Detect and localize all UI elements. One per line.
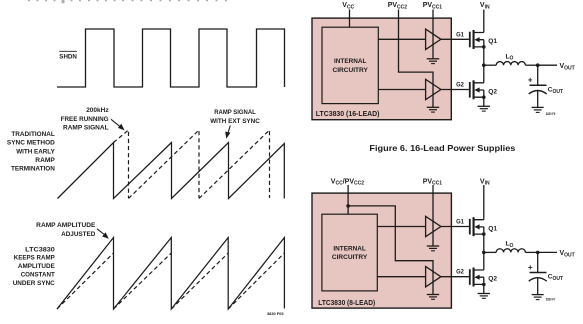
buffer top gate driver (8-lead) — [426, 216, 441, 236]
pin label VCC — [342, 2, 354, 10]
ground bottom driver — [427, 107, 439, 112]
label LTC3830 (8-LEAD) — [318, 300, 375, 307]
arrow to adjusted ramp peak — [97, 229, 109, 239]
svg-text:CIRCUITRY: CIRCUITRY — [332, 254, 368, 261]
label RAMP AMPLITUDE ADJUSTED — [36, 222, 96, 238]
svg-text:G2: G2 — [456, 81, 464, 88]
pin label PVCC1 — [423, 2, 443, 10]
svg-text:G1: G1 — [456, 219, 464, 226]
wire VIN to Q1 drain (8-lead) — [483, 185, 485, 220]
wire PVCC1 to top driver supply — [432, 10, 434, 59]
inductor LO — [496, 53, 525, 65]
svg-text:3830 F05: 3830 F05 — [267, 311, 284, 316]
capacitor COUT (8-lead) — [528, 252, 563, 294]
svg-text:VOUT: VOUT — [560, 250, 575, 258]
svg-text:COUT: COUT — [548, 87, 563, 95]
wire branch to bottom driver supply — [348, 206, 433, 295]
ground Q2 source — [478, 106, 490, 111]
ground bottom driver (8-lead) — [427, 295, 439, 300]
svg-text:WITH EXT SYNC: WITH EXT SYNC — [210, 118, 260, 125]
internal circuitry block — [322, 27, 378, 103]
svg-text:CONSTANT: CONSTANT — [21, 272, 55, 279]
arrow to ext-sync ramp peak — [225, 126, 230, 139]
transistor Q1 — [469, 30, 498, 65]
node SW junction — [482, 63, 496, 67]
svg-text:SYNC METHOD: SYNC METHOD — [7, 140, 55, 147]
ground COUT (8-lead) — [532, 295, 544, 300]
svg-text:VIN: VIN — [480, 178, 490, 186]
internal circuitry block (8-lead) — [322, 214, 377, 291]
ground top driver — [427, 59, 439, 64]
pin label PVCC1 (8-lead) — [423, 178, 443, 186]
svg-text:LTC3830: LTC3830 — [25, 246, 55, 253]
svg-text:Q1: Q1 — [488, 225, 497, 232]
label LTC3830 KEEPS RAMP AMPLITUDE CONSTANT UNDER SYNC — [13, 246, 56, 287]
svg-text:G1: G1 — [456, 31, 464, 38]
svg-text:CIRCUITRY: CIRCUITRY — [333, 67, 369, 74]
wire internal circuitry to top driver input (8-lead) — [377, 226, 425, 228]
capacitor COUT — [528, 65, 563, 107]
inductor LO (8-lead) — [496, 241, 525, 253]
wire internal circuitry to bottom driver input — [378, 89, 425, 91]
wire node G1 — [441, 31, 469, 39]
svg-text:FREE RUNNING: FREE RUNNING — [61, 116, 109, 123]
waveform solid ramp constant amplitude — [57, 238, 284, 310]
label 200kHz FREE RUNNING RAMP SIGNAL — [61, 107, 110, 131]
svg-text:PVCC1: PVCC1 — [423, 2, 443, 10]
caption Figure 6 — [369, 143, 515, 153]
svg-text:VCC: VCC — [342, 2, 354, 10]
wire node G2 — [441, 81, 469, 89]
wire internal circuitry to top driver input — [378, 38, 425, 40]
svg-text:G2: G2 — [456, 269, 464, 276]
wire node G2 (8-lead) — [441, 269, 469, 277]
wire VCC to internal circuitry — [349, 10, 351, 28]
transistor Q2 (8-lead) — [469, 252, 498, 293]
waveform dashed 200kHz free-running ramp — [114, 130, 270, 199]
ground top driver (8-lead) — [427, 246, 439, 251]
svg-text:+: + — [528, 76, 533, 85]
waveform solid ramp traditional sync early termination — [58, 143, 285, 199]
svg-text:+: + — [528, 263, 533, 272]
wire LO to output node — [525, 63, 539, 67]
waveform SHDN square wave — [57, 29, 285, 87]
wire node VOUT — [538, 63, 575, 71]
pin label PVCC2 — [388, 2, 408, 10]
svg-text:3830 F7: 3830 F7 — [546, 297, 556, 302]
wire node VOUT (8-lead) — [538, 250, 575, 258]
svg-text:TRADITIONAL: TRADITIONAL — [11, 131, 54, 138]
svg-text:SHDN: SHDN — [59, 54, 77, 61]
pin label VCC/PVCC2 — [331, 178, 364, 186]
transistor Q1 (8-lead) — [469, 217, 498, 252]
note 3830 F6 — [546, 111, 556, 116]
svg-text:RAMP SIGNAL: RAMP SIGNAL — [63, 124, 109, 131]
buffer top gate driver — [426, 29, 441, 49]
buffer bottom gate driver — [426, 79, 441, 99]
svg-text:WITH EARLY: WITH EARLY — [16, 148, 55, 155]
svg-text:LTC3830 (16-LEAD): LTC3830 (16-LEAD) — [316, 111, 380, 118]
svg-text:Q1: Q1 — [488, 38, 497, 45]
svg-text:RAMP AMPLITUDE: RAMP AMPLITUDE — [36, 222, 96, 229]
wire VIN to Q1 drain — [483, 10, 485, 33]
svg-text:RAMP SIGNAL: RAMP SIGNAL — [214, 109, 256, 116]
svg-text:TERMINATION: TERMINATION — [11, 166, 55, 173]
svg-text:COUT: COUT — [548, 274, 563, 282]
label SHDN — [59, 51, 77, 60]
svg-text:LO: LO — [506, 241, 514, 249]
waveform dashed ramp amplitude adjusted — [57, 253, 284, 309]
pin label VIN (8-lead) — [480, 178, 490, 186]
wire internal circuitry to bottom driver input (8-lead) — [377, 276, 425, 278]
svg-text:LO: LO — [506, 53, 514, 61]
svg-text:UNDER SYNC: UNDER SYNC — [13, 280, 55, 287]
IC U1 LTC3830 (16-LEAD) package box — [312, 18, 451, 120]
svg-text:VIN: VIN — [480, 2, 490, 10]
svg-text:KEEPS RAMP: KEEPS RAMP — [14, 255, 56, 262]
transistor Q2 — [469, 65, 498, 106]
svg-text:AMPLITUDE: AMPLITUDE — [18, 263, 56, 270]
wire PVCC2 to bottom driver supply — [399, 10, 434, 108]
svg-text:Q2: Q2 — [488, 88, 497, 95]
svg-text:Figure 6. 16-Lead Power Suppli: Figure 6. 16-Lead Power Supplies — [369, 143, 515, 153]
svg-text:LTC3830 (8-LEAD): LTC3830 (8-LEAD) — [318, 300, 375, 307]
wire PVCC1 to top driver supply (8-lead) — [432, 185, 434, 246]
svg-text:200kHz: 200kHz — [86, 107, 109, 114]
arrow to free-running ramp peak — [111, 119, 125, 130]
svg-text:PVCC2: PVCC2 — [388, 2, 408, 10]
wire node G1 (8-lead) — [441, 219, 469, 227]
pin label VIN — [480, 2, 490, 10]
label RAMP SIGNAL WITH EXT SYNC — [210, 109, 260, 125]
ground COUT — [532, 107, 544, 112]
label TRADITIONAL SYNC METHOD WITH EARLY RAMP TERMINATION — [7, 131, 56, 172]
label LTC3830 (16-LEAD) — [316, 111, 380, 118]
note 3830 F7 — [546, 297, 556, 302]
svg-text:Q2: Q2 — [488, 276, 497, 283]
node junction VCC/PVCC2 branch — [346, 204, 350, 208]
svg-text:INTERNAL: INTERNAL — [333, 245, 365, 252]
svg-text:INTERNAL: INTERNAL — [334, 58, 366, 65]
wire LO to output node (8-lead) — [525, 251, 539, 255]
ground Q2 source (8-lead) — [478, 294, 490, 299]
svg-text:VOUT: VOUT — [560, 63, 575, 71]
svg-text:ADJUSTED: ADJUSTED — [61, 231, 96, 238]
wire VCC/PVCC2 to internal circuitry — [347, 185, 349, 214]
node SW junction (8-lead) — [482, 251, 496, 255]
svg-text:RAMP: RAMP — [35, 157, 55, 164]
svg-text:3830 F6: 3830 F6 — [546, 111, 556, 116]
buffer bottom gate driver (8-lead) — [426, 267, 441, 287]
IC U2 LTC3830 (8-LEAD) package box — [312, 193, 451, 308]
note 3830 F05 — [267, 311, 284, 316]
